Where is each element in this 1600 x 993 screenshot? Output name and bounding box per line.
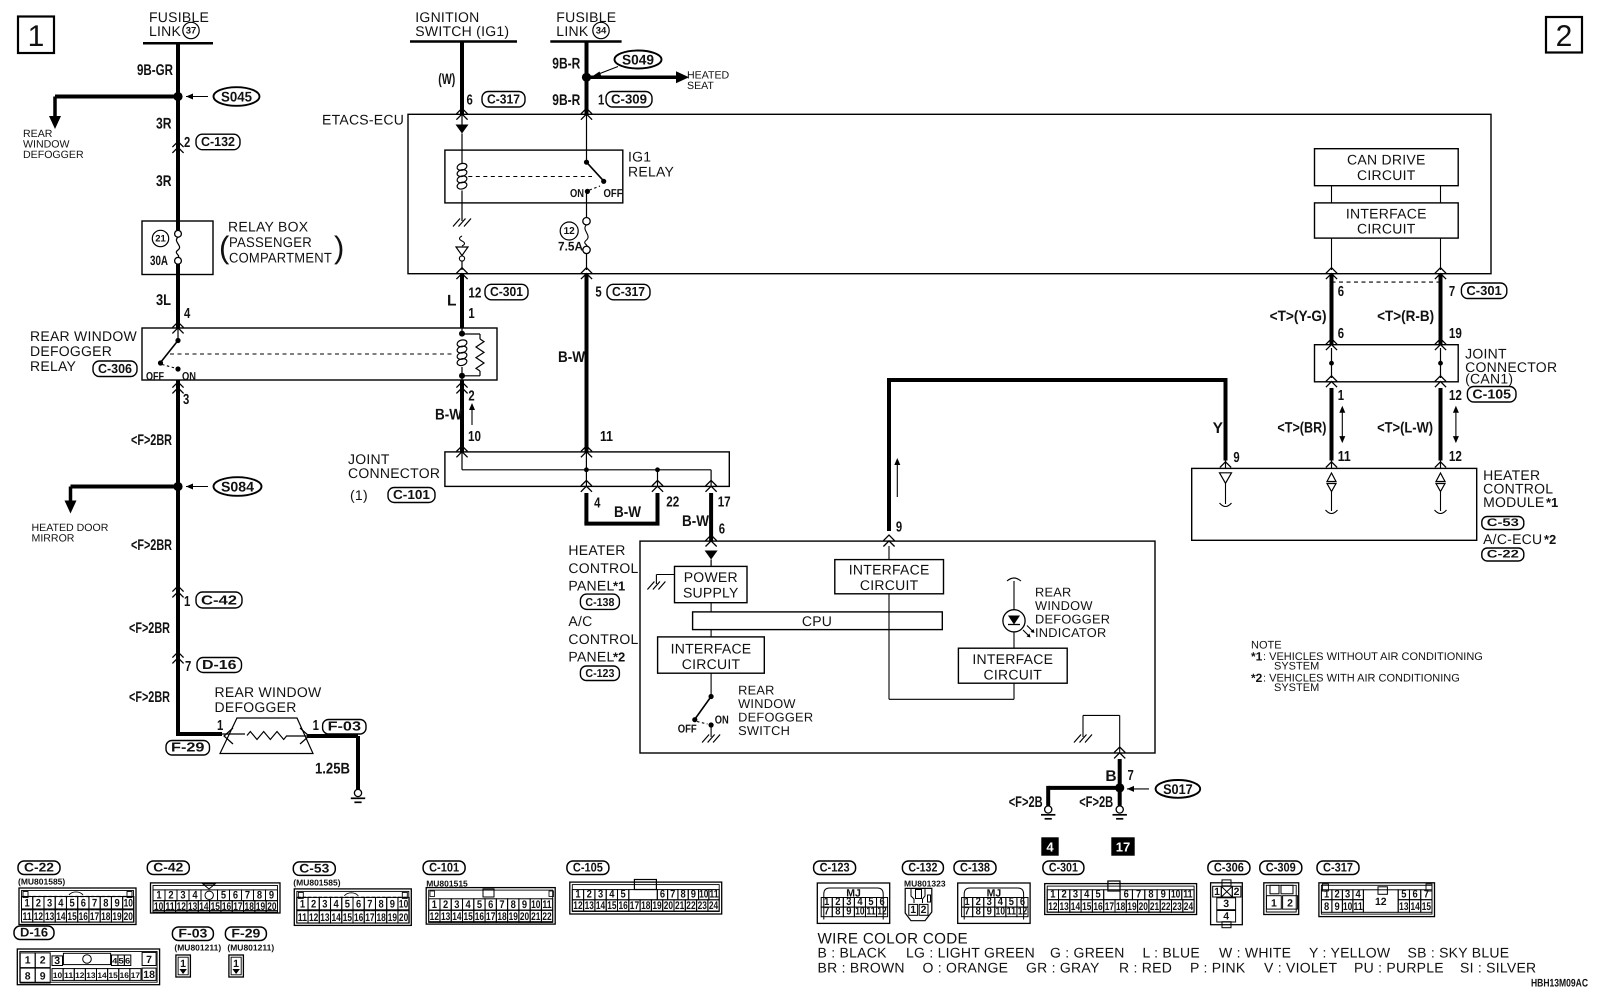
svg-text:1: 1 bbox=[313, 718, 319, 734]
svg-text:<F>2BR: <F>2BR bbox=[131, 537, 172, 554]
svg-text:1: 1 bbox=[468, 306, 474, 322]
svg-text:12: 12 bbox=[1449, 449, 1462, 465]
svg-text:10: 10 bbox=[855, 906, 864, 918]
svg-text:15: 15 bbox=[109, 971, 119, 980]
svg-text:2: 2 bbox=[184, 135, 190, 151]
svg-text:22: 22 bbox=[686, 900, 695, 912]
svg-text:20: 20 bbox=[124, 911, 133, 923]
svg-text:INTERFACE: INTERFACE bbox=[1346, 206, 1427, 222]
svg-text:PANEL: PANEL bbox=[568, 649, 614, 665]
svg-text:*1: *1 bbox=[613, 579, 625, 594]
svg-text:3: 3 bbox=[183, 392, 189, 408]
svg-text:(W): (W) bbox=[438, 71, 455, 88]
svg-text:14: 14 bbox=[452, 911, 462, 923]
svg-text:16: 16 bbox=[120, 971, 130, 980]
svg-text:7: 7 bbox=[670, 889, 675, 901]
svg-text:CIRCUIT: CIRCUIT bbox=[1357, 221, 1416, 237]
svg-text:5: 5 bbox=[477, 899, 482, 911]
svg-text:B-W: B-W bbox=[558, 349, 585, 366]
svg-text:18: 18 bbox=[641, 900, 650, 912]
svg-text:C-53: C-53 bbox=[299, 861, 329, 875]
svg-text:9B-R: 9B-R bbox=[552, 92, 580, 109]
svg-text:SWITCH: SWITCH bbox=[738, 723, 790, 738]
svg-text:9: 9 bbox=[522, 899, 527, 911]
svg-text:<F>2B: <F>2B bbox=[1079, 794, 1113, 811]
svg-text:9B-GR: 9B-GR bbox=[137, 62, 173, 79]
svg-text:OFF: OFF bbox=[604, 188, 623, 200]
svg-text:C-306: C-306 bbox=[98, 361, 132, 376]
svg-text:1: 1 bbox=[184, 594, 190, 610]
svg-text:SWITCH (IG1): SWITCH (IG1) bbox=[415, 23, 509, 39]
svg-text:12: 12 bbox=[75, 971, 85, 980]
svg-text:2: 2 bbox=[443, 899, 448, 911]
svg-text:R : RED: R : RED bbox=[1119, 960, 1172, 976]
svg-text:<T>(BR): <T>(BR) bbox=[1277, 420, 1326, 437]
svg-text:11: 11 bbox=[866, 906, 875, 918]
svg-text:3R: 3R bbox=[156, 173, 172, 190]
svg-text:8: 8 bbox=[976, 906, 981, 918]
svg-text:7: 7 bbox=[1449, 284, 1455, 300]
svg-text:5: 5 bbox=[595, 285, 601, 301]
svg-text:19: 19 bbox=[652, 900, 661, 912]
svg-text:5: 5 bbox=[69, 898, 74, 910]
svg-text:1: 1 bbox=[1050, 889, 1055, 901]
svg-text:1: 1 bbox=[300, 899, 305, 911]
svg-text:11: 11 bbox=[64, 971, 74, 980]
svg-text:C-101: C-101 bbox=[429, 861, 459, 875]
svg-text:Y: Y bbox=[1213, 420, 1224, 437]
svg-text:19: 19 bbox=[1127, 901, 1136, 913]
svg-text:C-306: C-306 bbox=[1214, 861, 1244, 875]
svg-text:ON: ON bbox=[570, 188, 584, 200]
svg-text:10: 10 bbox=[53, 971, 63, 980]
svg-text:F-29: F-29 bbox=[231, 927, 260, 941]
svg-text:6: 6 bbox=[488, 899, 493, 911]
svg-text:14: 14 bbox=[1410, 901, 1420, 913]
svg-text:1: 1 bbox=[217, 718, 223, 734]
svg-text:C-301: C-301 bbox=[490, 284, 523, 299]
svg-text:<T>(Y-G): <T>(Y-G) bbox=[1270, 308, 1327, 325]
svg-text:C-138: C-138 bbox=[585, 597, 615, 609]
svg-text:HBH13M09AC: HBH13M09AC bbox=[1531, 978, 1588, 990]
svg-text:2: 2 bbox=[1287, 897, 1293, 909]
svg-text:MODULE: MODULE bbox=[1483, 494, 1544, 510]
svg-text:CAN DRIVE: CAN DRIVE bbox=[1347, 152, 1425, 168]
svg-text:8: 8 bbox=[1324, 901, 1329, 913]
svg-text:10: 10 bbox=[154, 901, 163, 913]
svg-text:4: 4 bbox=[58, 898, 64, 910]
svg-text:CIRCUIT: CIRCUIT bbox=[1357, 167, 1416, 183]
svg-text:LINK: LINK bbox=[556, 23, 589, 39]
svg-text:11: 11 bbox=[600, 429, 613, 445]
svg-text:6: 6 bbox=[1124, 889, 1129, 901]
svg-text:6: 6 bbox=[81, 898, 86, 910]
svg-text:2: 2 bbox=[921, 904, 927, 916]
svg-text:7: 7 bbox=[185, 659, 191, 675]
svg-text:7: 7 bbox=[367, 899, 372, 911]
svg-text:24: 24 bbox=[1184, 901, 1194, 913]
svg-text:6: 6 bbox=[1413, 889, 1418, 901]
svg-text:3L: 3L bbox=[156, 292, 171, 309]
svg-text:10: 10 bbox=[996, 906, 1005, 918]
svg-text:9: 9 bbox=[846, 906, 851, 918]
svg-text:9: 9 bbox=[269, 890, 274, 902]
svg-text:8: 8 bbox=[835, 906, 840, 918]
svg-text:6: 6 bbox=[1338, 284, 1344, 300]
svg-text:21: 21 bbox=[675, 900, 684, 912]
svg-text:11: 11 bbox=[298, 912, 307, 924]
svg-text:14: 14 bbox=[596, 900, 606, 912]
svg-text:20: 20 bbox=[267, 901, 276, 913]
svg-text:4: 4 bbox=[112, 956, 118, 965]
svg-text:12: 12 bbox=[564, 226, 576, 237]
svg-text:3: 3 bbox=[1345, 889, 1350, 901]
svg-text:2: 2 bbox=[587, 889, 592, 901]
svg-text:1: 1 bbox=[25, 898, 30, 910]
svg-text:C-301: C-301 bbox=[1466, 283, 1501, 298]
svg-text:7: 7 bbox=[92, 898, 97, 910]
svg-text:1: 1 bbox=[156, 890, 161, 902]
svg-text:3: 3 bbox=[598, 889, 603, 901]
svg-text:2: 2 bbox=[1062, 889, 1067, 901]
svg-text:11: 11 bbox=[22, 911, 31, 923]
svg-text:20: 20 bbox=[664, 900, 673, 912]
svg-text:16: 16 bbox=[222, 901, 231, 913]
svg-text:DEFOGGER: DEFOGGER bbox=[215, 699, 297, 715]
svg-text:4: 4 bbox=[192, 890, 198, 902]
svg-text:S084: S084 bbox=[221, 479, 254, 495]
svg-text:SYSTEM: SYSTEM bbox=[1274, 661, 1319, 673]
svg-text:10: 10 bbox=[1343, 901, 1352, 913]
svg-text:14: 14 bbox=[56, 911, 66, 923]
svg-text:C-132: C-132 bbox=[201, 134, 235, 149]
svg-text:10: 10 bbox=[699, 889, 708, 901]
svg-text:37: 37 bbox=[186, 26, 197, 37]
svg-text:2: 2 bbox=[468, 389, 474, 405]
svg-text:8: 8 bbox=[1148, 889, 1153, 901]
svg-text:15: 15 bbox=[1082, 901, 1091, 913]
svg-text:6: 6 bbox=[467, 93, 473, 109]
svg-text:F-03: F-03 bbox=[328, 718, 361, 733]
svg-text:10: 10 bbox=[531, 899, 540, 911]
svg-text:8: 8 bbox=[25, 971, 31, 983]
svg-text:18: 18 bbox=[143, 969, 155, 981]
svg-text:5: 5 bbox=[221, 890, 226, 902]
svg-text:3R: 3R bbox=[156, 116, 172, 133]
svg-text:C-309: C-309 bbox=[1266, 861, 1296, 875]
svg-text:14: 14 bbox=[1071, 901, 1081, 913]
svg-text:C-22: C-22 bbox=[24, 861, 54, 875]
svg-text:9: 9 bbox=[691, 889, 696, 901]
svg-text:7: 7 bbox=[1136, 889, 1141, 901]
svg-text:13: 13 bbox=[86, 971, 96, 980]
svg-text:16: 16 bbox=[1093, 901, 1102, 913]
svg-text:8: 8 bbox=[680, 889, 685, 901]
svg-text:B-W: B-W bbox=[682, 513, 709, 530]
svg-text:1: 1 bbox=[25, 955, 31, 967]
svg-text:15: 15 bbox=[464, 911, 473, 923]
svg-text:3: 3 bbox=[47, 898, 52, 910]
svg-text:24: 24 bbox=[709, 900, 719, 912]
svg-text:9: 9 bbox=[1335, 901, 1340, 913]
svg-text:*1: *1 bbox=[1251, 650, 1263, 664]
svg-text:S049: S049 bbox=[622, 52, 654, 68]
svg-text:REAR WINDOW: REAR WINDOW bbox=[30, 328, 138, 344]
svg-text:2: 2 bbox=[168, 890, 173, 902]
svg-text:7: 7 bbox=[1128, 768, 1134, 784]
svg-text:21: 21 bbox=[1150, 901, 1159, 913]
svg-text:21: 21 bbox=[531, 911, 540, 923]
svg-text:23: 23 bbox=[698, 900, 707, 912]
svg-text:INTERFACE: INTERFACE bbox=[972, 651, 1053, 667]
svg-text:19: 19 bbox=[1449, 326, 1462, 342]
svg-text:7: 7 bbox=[245, 890, 250, 902]
svg-text:<T>(L-W): <T>(L-W) bbox=[1377, 420, 1433, 437]
svg-text:C-123: C-123 bbox=[585, 668, 614, 680]
svg-text:8: 8 bbox=[103, 898, 108, 910]
svg-text:Y : YELLOW: Y : YELLOW bbox=[1309, 945, 1391, 961]
svg-text:11: 11 bbox=[542, 899, 551, 911]
svg-text:<F>2BR: <F>2BR bbox=[131, 432, 172, 449]
svg-text:4: 4 bbox=[1356, 889, 1362, 901]
svg-text:10: 10 bbox=[1171, 889, 1180, 901]
svg-text:17: 17 bbox=[1105, 901, 1114, 913]
svg-text:11: 11 bbox=[1338, 449, 1351, 465]
svg-text:1: 1 bbox=[1214, 886, 1220, 898]
svg-text:17: 17 bbox=[630, 900, 639, 912]
svg-text:5: 5 bbox=[1095, 889, 1100, 901]
svg-text:23: 23 bbox=[1173, 901, 1182, 913]
svg-text:15: 15 bbox=[1422, 901, 1431, 913]
svg-text:4: 4 bbox=[334, 899, 340, 911]
svg-text:19: 19 bbox=[388, 912, 397, 924]
svg-text:16: 16 bbox=[619, 900, 628, 912]
svg-text:<F>2BR: <F>2BR bbox=[129, 620, 170, 637]
svg-text:HEATER: HEATER bbox=[568, 542, 625, 558]
svg-text:15: 15 bbox=[607, 900, 616, 912]
svg-text:19: 19 bbox=[256, 901, 265, 913]
svg-text:INTERFACE: INTERFACE bbox=[671, 641, 752, 657]
svg-text:6: 6 bbox=[356, 899, 361, 911]
svg-text:13: 13 bbox=[320, 912, 329, 924]
svg-text:C-42: C-42 bbox=[153, 861, 183, 875]
svg-text:12: 12 bbox=[177, 901, 186, 913]
svg-text:9: 9 bbox=[1233, 450, 1239, 466]
svg-text:F-03: F-03 bbox=[178, 927, 207, 941]
svg-text:REAR WINDOW: REAR WINDOW bbox=[215, 684, 323, 700]
svg-text:3: 3 bbox=[322, 899, 327, 911]
svg-text:16: 16 bbox=[79, 911, 88, 923]
svg-text:7: 7 bbox=[1424, 889, 1429, 901]
svg-text:C-317: C-317 bbox=[487, 91, 520, 106]
svg-text:GR : GRAY: GR : GRAY bbox=[1026, 960, 1100, 976]
svg-text:2: 2 bbox=[1234, 886, 1240, 898]
svg-text:3: 3 bbox=[54, 955, 60, 967]
svg-text:1: 1 bbox=[28, 20, 45, 53]
svg-text:17: 17 bbox=[131, 971, 141, 980]
svg-text:9B-R: 9B-R bbox=[552, 55, 580, 72]
svg-text:CPU: CPU bbox=[802, 613, 832, 629]
svg-text:B-W: B-W bbox=[435, 407, 462, 424]
svg-text:12: 12 bbox=[1018, 906, 1027, 918]
svg-text:RELAY BOX: RELAY BOX bbox=[228, 219, 309, 235]
svg-text:INDICATOR: INDICATOR bbox=[1035, 625, 1106, 640]
svg-text:14: 14 bbox=[199, 901, 209, 913]
svg-text:B: B bbox=[1105, 768, 1116, 785]
svg-text:(MU801211): (MU801211) bbox=[174, 943, 221, 953]
svg-text:7.5A: 7.5A bbox=[558, 240, 583, 254]
svg-text:13: 13 bbox=[188, 901, 197, 913]
svg-text:MU801323: MU801323 bbox=[904, 878, 946, 888]
svg-text:D-16: D-16 bbox=[202, 657, 237, 672]
svg-text:16: 16 bbox=[475, 911, 484, 923]
svg-text:(MU801585): (MU801585) bbox=[293, 877, 340, 887]
svg-text:<F>2BR: <F>2BR bbox=[129, 689, 170, 706]
svg-text:(MU801585): (MU801585) bbox=[18, 877, 65, 887]
svg-text:3: 3 bbox=[1223, 898, 1229, 910]
svg-text:8: 8 bbox=[379, 899, 384, 911]
svg-text:10: 10 bbox=[124, 898, 133, 910]
svg-text:8: 8 bbox=[511, 899, 516, 911]
svg-text:SEAT: SEAT bbox=[687, 80, 714, 92]
svg-text:9: 9 bbox=[987, 906, 992, 918]
svg-text:22: 22 bbox=[1161, 901, 1170, 913]
svg-text:CIRCUIT: CIRCUIT bbox=[984, 667, 1043, 683]
svg-text:11: 11 bbox=[165, 901, 174, 913]
svg-text:F-29: F-29 bbox=[171, 739, 205, 754]
svg-text:D-16: D-16 bbox=[20, 926, 48, 940]
svg-text:BR : BROWN: BR : BROWN bbox=[818, 960, 905, 976]
svg-text:4: 4 bbox=[466, 899, 472, 911]
svg-text:1: 1 bbox=[1271, 897, 1277, 909]
svg-text:C-22: C-22 bbox=[1487, 548, 1519, 560]
svg-text:6: 6 bbox=[660, 889, 665, 901]
svg-text:C-105: C-105 bbox=[1472, 386, 1511, 401]
svg-text:CIRCUIT: CIRCUIT bbox=[682, 656, 741, 672]
svg-text:7: 7 bbox=[824, 906, 829, 918]
svg-text:PASSENGER: PASSENGER bbox=[229, 234, 312, 250]
svg-text:19: 19 bbox=[112, 911, 121, 923]
svg-text:1: 1 bbox=[233, 958, 239, 970]
svg-text:L: L bbox=[447, 293, 456, 310]
svg-text:4: 4 bbox=[1223, 911, 1229, 923]
svg-text:22: 22 bbox=[542, 911, 551, 923]
svg-text:13: 13 bbox=[585, 900, 594, 912]
svg-text:17: 17 bbox=[486, 911, 495, 923]
svg-text:S017: S017 bbox=[1163, 781, 1193, 797]
svg-text:C-53: C-53 bbox=[1487, 517, 1519, 529]
svg-text:15: 15 bbox=[343, 912, 352, 924]
svg-text:20: 20 bbox=[520, 911, 529, 923]
svg-text:ON: ON bbox=[182, 371, 196, 383]
svg-text:18: 18 bbox=[101, 911, 110, 923]
svg-text:A/C: A/C bbox=[568, 613, 592, 629]
svg-text:18: 18 bbox=[1116, 901, 1125, 913]
svg-text:C-132: C-132 bbox=[908, 861, 937, 875]
svg-text:12: 12 bbox=[430, 911, 439, 923]
svg-text:7: 7 bbox=[965, 906, 970, 918]
svg-text:CIRCUIT: CIRCUIT bbox=[860, 577, 919, 593]
svg-text:<T>(R-B): <T>(R-B) bbox=[1377, 308, 1434, 325]
svg-text:C-105: C-105 bbox=[573, 861, 603, 875]
svg-text:5: 5 bbox=[119, 956, 125, 965]
svg-text:OFF: OFF bbox=[146, 371, 164, 383]
svg-text:DEFOGGER: DEFOGGER bbox=[23, 149, 84, 161]
svg-text:5: 5 bbox=[1401, 889, 1406, 901]
svg-text:(MU801211): (MU801211) bbox=[227, 943, 274, 953]
svg-text:1: 1 bbox=[575, 889, 580, 901]
svg-text:*2: *2 bbox=[1251, 671, 1263, 685]
svg-text:<F>2B: <F>2B bbox=[1009, 794, 1043, 811]
svg-text:LG : LIGHT GREEN: LG : LIGHT GREEN bbox=[906, 945, 1035, 961]
svg-text:9: 9 bbox=[114, 898, 119, 910]
svg-text:CONTROL: CONTROL bbox=[568, 631, 638, 647]
svg-text:C-138: C-138 bbox=[960, 861, 990, 875]
svg-text:PANEL: PANEL bbox=[568, 578, 614, 594]
svg-text:SUPPLY: SUPPLY bbox=[683, 585, 739, 601]
svg-text:PU : PURPLE: PU : PURPLE bbox=[1354, 960, 1444, 976]
svg-text:12: 12 bbox=[877, 906, 886, 918]
svg-text:MIRROR: MIRROR bbox=[32, 533, 75, 545]
svg-text:C-301: C-301 bbox=[1049, 861, 1078, 875]
svg-text:17: 17 bbox=[233, 901, 242, 913]
svg-text:15: 15 bbox=[67, 911, 76, 923]
svg-text:CONNECTOR: CONNECTOR bbox=[348, 465, 440, 481]
svg-text:10: 10 bbox=[468, 429, 481, 445]
svg-text:22: 22 bbox=[666, 495, 679, 511]
svg-text:*2: *2 bbox=[1544, 532, 1556, 547]
svg-text:12: 12 bbox=[1449, 388, 1462, 404]
svg-text:18: 18 bbox=[245, 901, 254, 913]
svg-text:11: 11 bbox=[1183, 889, 1192, 901]
svg-text:14: 14 bbox=[97, 971, 107, 980]
svg-text:(CAN1): (CAN1) bbox=[1465, 371, 1513, 387]
svg-text:3: 3 bbox=[180, 890, 185, 902]
svg-text:14: 14 bbox=[331, 912, 341, 924]
svg-text:1: 1 bbox=[910, 904, 916, 916]
svg-text:4: 4 bbox=[609, 889, 615, 901]
svg-text:6: 6 bbox=[719, 522, 725, 538]
svg-text:19: 19 bbox=[509, 911, 518, 923]
svg-text:C-317: C-317 bbox=[612, 284, 645, 299]
svg-text:OFF: OFF bbox=[678, 724, 697, 736]
svg-text:S045: S045 bbox=[221, 89, 252, 105]
svg-text:1: 1 bbox=[180, 958, 186, 970]
svg-text:12: 12 bbox=[1048, 901, 1057, 913]
svg-text:15: 15 bbox=[211, 901, 220, 913]
svg-text:4: 4 bbox=[184, 306, 190, 322]
svg-text:9: 9 bbox=[896, 520, 902, 536]
svg-text:13: 13 bbox=[1399, 901, 1408, 913]
svg-text:18: 18 bbox=[376, 912, 385, 924]
svg-text:LINK: LINK bbox=[149, 23, 182, 39]
svg-text:9: 9 bbox=[390, 899, 395, 911]
svg-text:1: 1 bbox=[598, 93, 604, 109]
svg-text:A/C-ECU: A/C-ECU bbox=[1483, 531, 1542, 547]
svg-text:6: 6 bbox=[125, 956, 131, 965]
svg-text:21: 21 bbox=[155, 234, 166, 245]
svg-text:CONTROL: CONTROL bbox=[568, 560, 638, 576]
svg-text:11: 11 bbox=[1354, 901, 1363, 913]
svg-text:IG1: IG1 bbox=[628, 149, 651, 165]
svg-text:17: 17 bbox=[365, 912, 374, 924]
svg-text:B-W: B-W bbox=[614, 504, 641, 521]
svg-text:20: 20 bbox=[399, 912, 408, 924]
svg-text:7: 7 bbox=[499, 899, 504, 911]
svg-text:RELAY: RELAY bbox=[628, 164, 675, 180]
svg-text:POWER: POWER bbox=[684, 569, 738, 585]
svg-text:): ) bbox=[334, 230, 344, 265]
